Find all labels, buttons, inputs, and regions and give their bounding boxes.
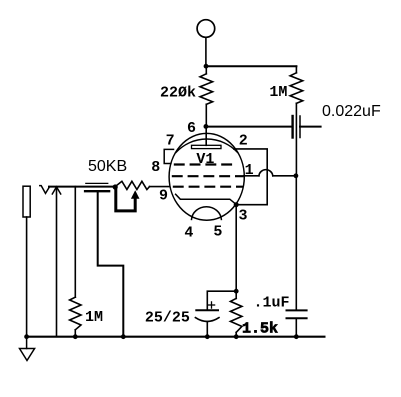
- svg-text:1.5k: 1.5k: [242, 320, 278, 337]
- cathode: [176, 194, 237, 204]
- heater filament arc: [192, 207, 222, 220]
- svg-text:5: 5: [213, 224, 222, 241]
- capacitor .1uF: [287, 310, 307, 336]
- wire pin6 to coupling cap: [206, 126, 292, 128]
- wire: [205, 37, 207, 66]
- wire pin3 cathode down: [235, 205, 237, 292]
- input jack: [23, 186, 30, 217]
- tube V1 envelope: [169, 133, 244, 220]
- wire B+ rail: [206, 65, 296, 67]
- svg-text:0.022uF: 0.022uF: [322, 103, 381, 120]
- wire input: [49, 186, 115, 188]
- svg-text:V1: V1: [196, 151, 214, 168]
- wire pin 1 with hop: [244, 170, 296, 176]
- wire jack to ground: [26, 217, 28, 337]
- node 1.5k ground: [234, 334, 239, 339]
- ground bus: [27, 336, 325, 338]
- resistor 1M (grid): [70, 297, 81, 337]
- svg-text:7: 7: [166, 132, 175, 149]
- plate (anode) bar: [192, 145, 222, 148]
- node electrolytic ground: [205, 334, 210, 339]
- ground symbol: [20, 337, 35, 361]
- pot wiper arrow: [116, 189, 140, 211]
- svg-text:4: 4: [184, 224, 193, 241]
- resistor 1M (plate load): [290, 66, 303, 176]
- grid dashes row 2: [172, 175, 244, 177]
- wire cathode to bypass cap: [207, 291, 236, 310]
- shield capacitor upper line: [86, 182, 108, 184]
- node pin1 / screen junction: [294, 173, 299, 178]
- resistor 1.5k cathode: [230, 291, 242, 337]
- svg-text:22Øk: 22Øk: [160, 85, 196, 102]
- svg-text:.1uF: .1uF: [254, 295, 290, 312]
- shield capacitor lower plate: [85, 190, 109, 192]
- capacitor 0.022uF: [293, 116, 321, 138]
- jack tip contact mark: [40, 186, 50, 194]
- capacitor 25/25 electrolytic: [195, 310, 219, 337]
- pin 8 shield bracket: [164, 149, 173, 163]
- jack switch arrow: [52, 187, 60, 337]
- plate lead pin 6: [205, 126, 207, 145]
- node pot input: [113, 184, 118, 189]
- resistor R 220k: [200, 66, 213, 126]
- wire screen to bypass cap: [295, 176, 297, 310]
- svg-text:25/25: 25/25: [145, 310, 190, 327]
- tube internal shield arc: [176, 139, 238, 152]
- grid dashes row 1: [174, 163, 234, 165]
- node cathode junction: [234, 289, 239, 294]
- svg-text:1M: 1M: [85, 309, 103, 326]
- wire pin 9 (grid): [150, 186, 170, 188]
- wire pin2 to pin3 loop: [234, 149, 267, 205]
- plus sign: [208, 302, 214, 308]
- node pin6 junction: [204, 124, 209, 129]
- svg-text:9: 9: [159, 188, 168, 205]
- node input jack ground: [24, 334, 29, 339]
- svg-text:50KB: 50KB: [88, 158, 127, 175]
- grid dashes row 3: [173, 186, 244, 188]
- wire to grid resistor: [74, 187, 76, 298]
- node shield ground: [121, 334, 126, 339]
- node pin 3: [234, 202, 239, 207]
- svg-text:2: 2: [239, 132, 248, 149]
- node B+ junction: [204, 64, 209, 69]
- node grid resistor ground: [73, 334, 78, 339]
- potentiometer 50KB track: [115, 181, 150, 189]
- svg-text:3: 3: [239, 208, 248, 225]
- svg-text:8: 8: [151, 159, 160, 176]
- wire shield to ground: [98, 193, 124, 337]
- power terminal B+: [197, 20, 215, 38]
- svg-text:6: 6: [187, 120, 196, 137]
- svg-text:1M: 1M: [269, 84, 287, 101]
- node .1uF ground: [294, 334, 299, 339]
